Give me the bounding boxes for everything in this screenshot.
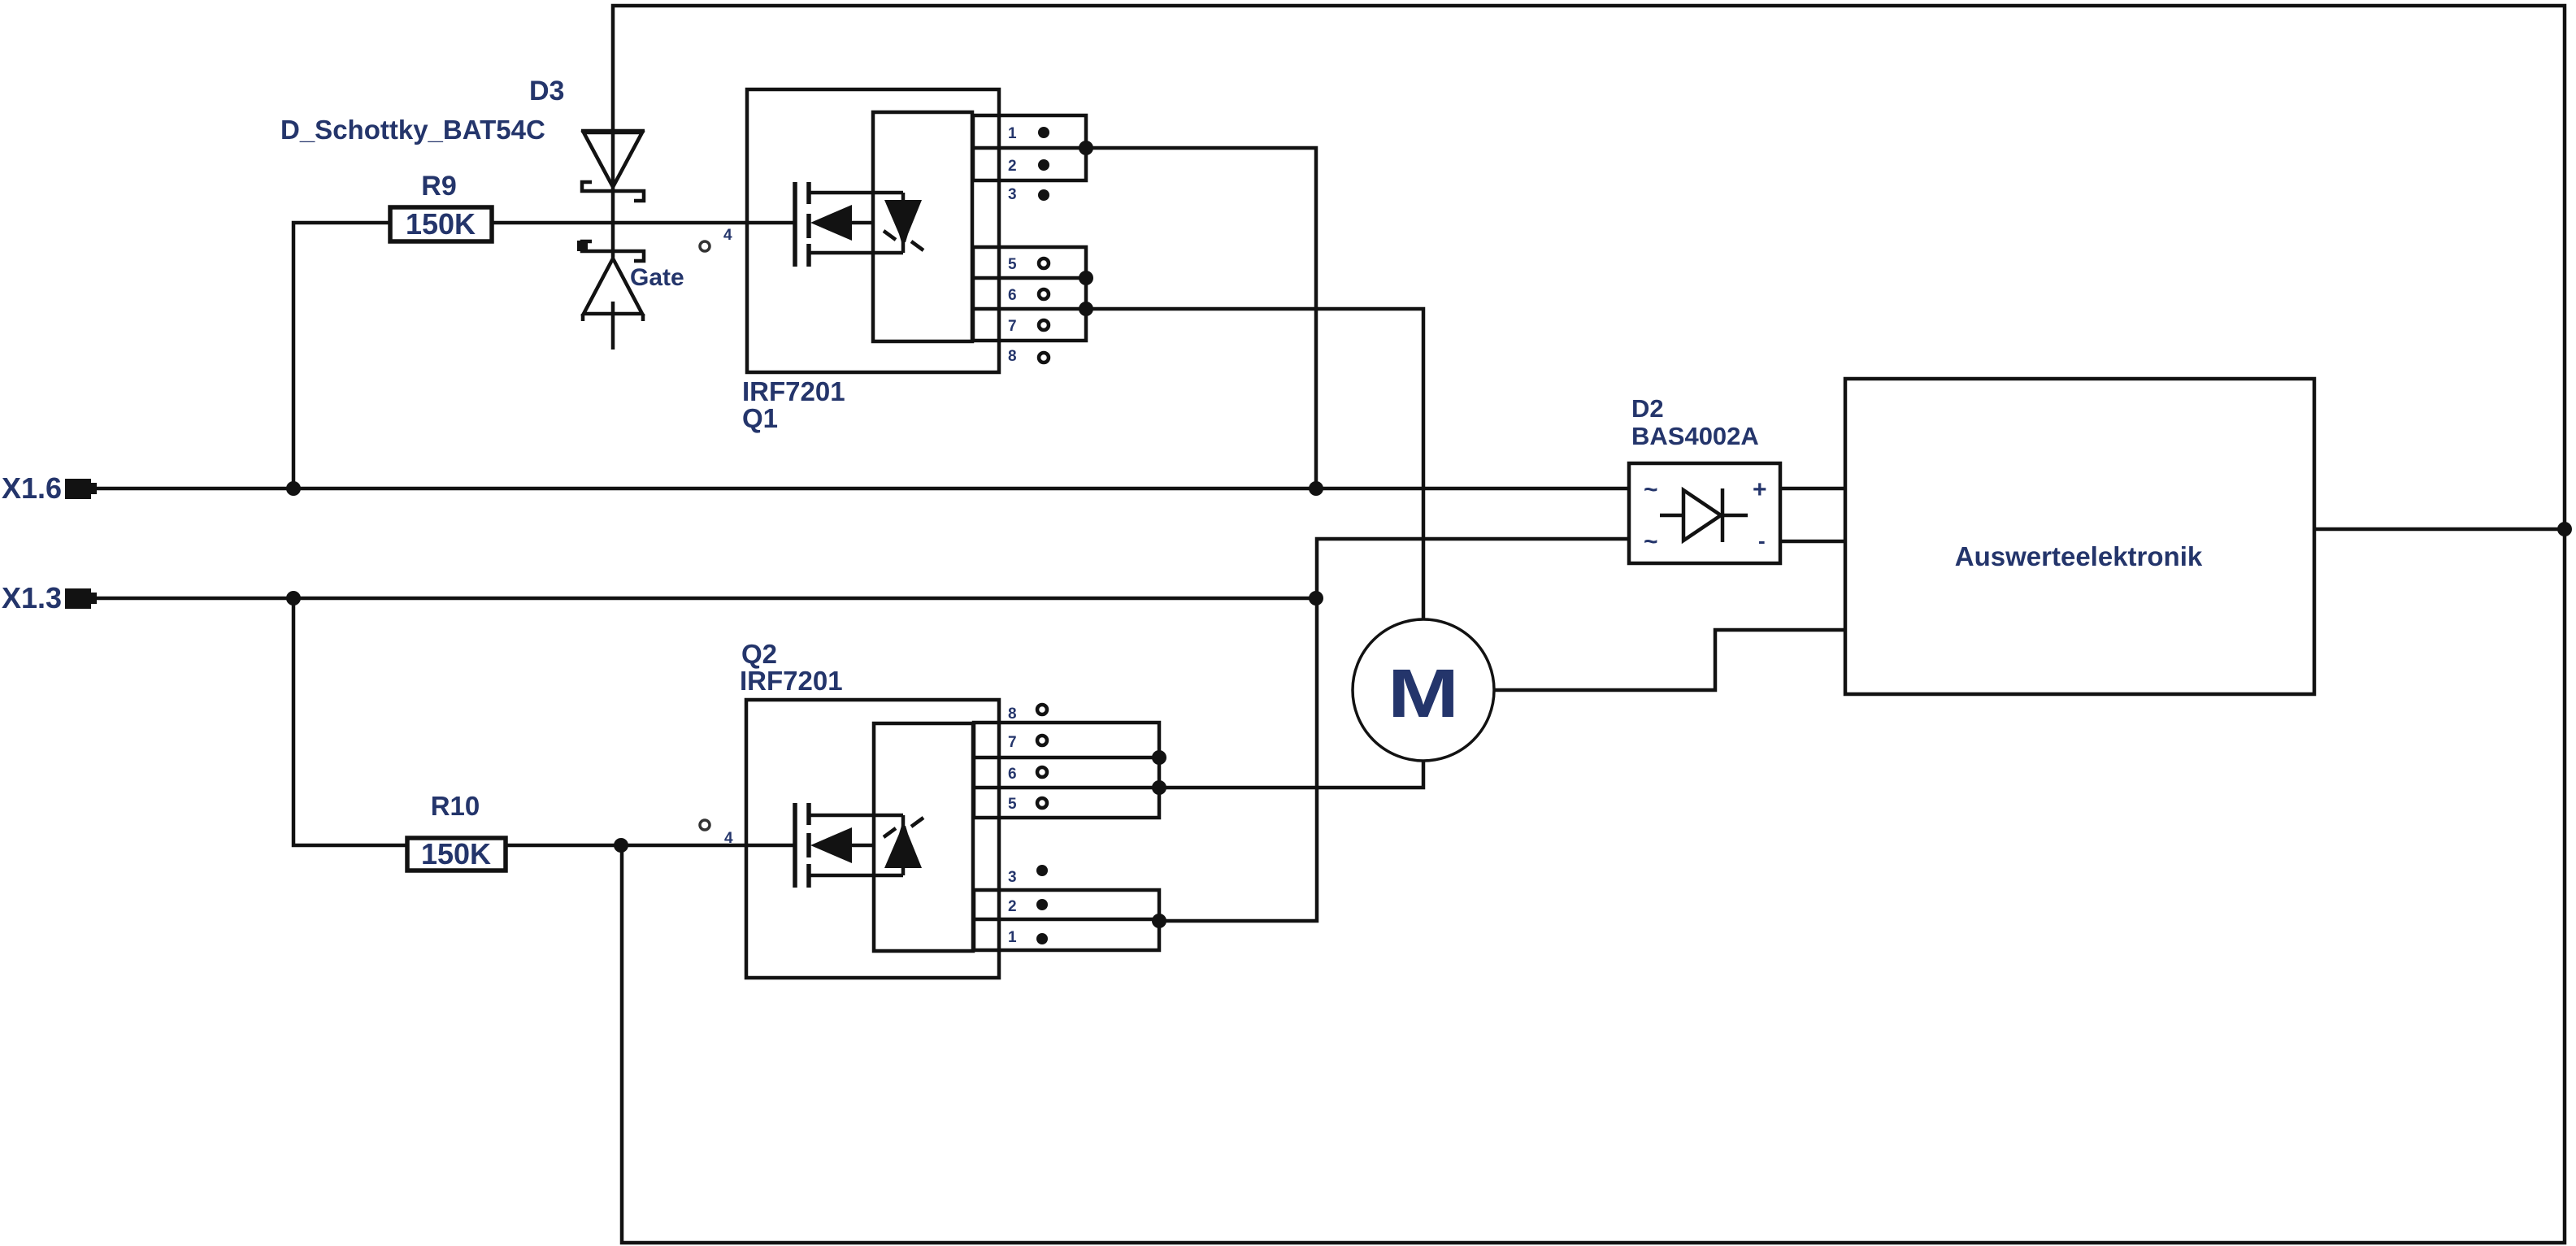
svg-text:3: 3 bbox=[1008, 186, 1017, 203]
Q2 pin 3 dot bbox=[1036, 865, 1048, 876]
Q1 pin boxes bottom (pins 5,6,7) bbox=[973, 247, 1086, 341]
svg-text:R9: R9 bbox=[421, 171, 456, 202]
junction R10 drop to bottom rail bbox=[614, 838, 628, 853]
wire D2 plus output bbox=[1780, 487, 1845, 491]
Q2 pin 1 dot bbox=[1036, 933, 1048, 944]
transistor Q2 MOSFET symbol bbox=[795, 803, 903, 888]
Q2 pin 2 dot bbox=[1036, 899, 1048, 910]
svg-text:IRF7201: IRF7201 bbox=[740, 666, 843, 696]
svg-text:D2: D2 bbox=[1631, 394, 1664, 423]
junction Q1 pins 1-2 bbox=[1079, 141, 1093, 155]
diode D3 lower (schottky cathode up, anode bottom) bbox=[577, 241, 644, 349]
svg-text:1: 1 bbox=[1008, 929, 1017, 946]
svg-text:Gate: Gate bbox=[630, 264, 684, 291]
Q1 pin 8 circle bbox=[1039, 353, 1049, 363]
junction X1.6/R9 bbox=[286, 481, 301, 496]
svg-text:D3: D3 bbox=[529, 76, 564, 106]
junction Q1 pins 6-7 bbox=[1079, 302, 1093, 316]
transistor Q2 outer box bbox=[746, 700, 999, 978]
Q1 gate pin mark bbox=[700, 241, 710, 251]
wire X1.6 net horizontal bbox=[65, 487, 1629, 491]
wire D2 minus output bbox=[1780, 540, 1845, 544]
svg-text:-: - bbox=[1758, 528, 1766, 553]
svg-text:Q2: Q2 bbox=[741, 639, 777, 669]
wire D2 lower input / X1.3 riser to Q2 sources bbox=[1159, 539, 1629, 921]
resistor R9 bbox=[390, 207, 492, 241]
junction Q2 pins 6-5 bbox=[1152, 780, 1166, 795]
transistor Q1 inner box bbox=[873, 112, 972, 341]
junction X1.3/R10 bbox=[286, 591, 301, 606]
junction X1.6 riser bbox=[1309, 481, 1323, 496]
svg-text:~: ~ bbox=[1644, 528, 1658, 555]
D2 diode symbol bbox=[1660, 488, 1748, 542]
svg-text:IRF7201: IRF7201 bbox=[742, 376, 845, 406]
terminal X1.3 bbox=[65, 588, 97, 609]
Q2 pin boxes top (pins 7,6,5) bbox=[974, 723, 1159, 818]
svg-text:1: 1 bbox=[1008, 125, 1017, 142]
junction Q1 pins 5-6 bbox=[1079, 271, 1093, 285]
svg-text:Auswerteelektronik: Auswerteelektronik bbox=[1955, 541, 2203, 571]
svg-text:150K: 150K bbox=[421, 837, 491, 870]
resistor R10 bbox=[407, 838, 506, 870]
svg-text:5: 5 bbox=[1008, 256, 1017, 273]
svg-text:+: + bbox=[1753, 476, 1767, 503]
svg-text:R10: R10 bbox=[431, 791, 480, 821]
svg-text:~: ~ bbox=[1644, 476, 1658, 503]
Q2 gate pin mark bbox=[700, 820, 710, 830]
svg-text:150K: 150K bbox=[406, 207, 476, 241]
wire X1.3 net horizontal bbox=[65, 597, 1316, 601]
svg-text:X1.3: X1.3 bbox=[2, 581, 62, 614]
Q1 pin 6 circle bbox=[1039, 289, 1049, 299]
svg-text:7: 7 bbox=[1008, 734, 1017, 751]
Q1 pin 3 dot bbox=[1038, 189, 1049, 201]
wire R9 riser from X1.6 bbox=[293, 223, 390, 488]
svg-text:7: 7 bbox=[1008, 318, 1017, 335]
svg-text:2: 2 bbox=[1008, 158, 1017, 175]
box Auswerteelektronik bbox=[1845, 379, 2314, 694]
diode D3 upper (anode top, schottky cathode) bbox=[581, 131, 645, 258]
motor M circle bbox=[1353, 619, 1494, 761]
wire Q1 source pins to X1.6 net bbox=[1086, 148, 1316, 488]
terminal X1.6 bbox=[65, 479, 97, 499]
Q2 pin 8 circle bbox=[1037, 705, 1047, 714]
svg-text:4: 4 bbox=[724, 830, 733, 847]
wire R9 to Q1 gate bbox=[492, 221, 794, 225]
svg-text:BAS4002A: BAS4002A bbox=[1631, 422, 1759, 450]
wire top/right/bottom loop (D3 anode to bottom rail) bbox=[613, 6, 2565, 1243]
transistor Q1 body diode bbox=[884, 193, 923, 253]
bridge D2 box bbox=[1629, 463, 1780, 563]
junction Q2 pins 2-1 bbox=[1152, 914, 1166, 928]
wire motor right lead to Auswerteelektronik bbox=[1494, 630, 1845, 690]
svg-text:Q1: Q1 bbox=[742, 403, 778, 433]
transistor Q1 outer box bbox=[747, 89, 999, 372]
Q2 pin 7 circle bbox=[1037, 736, 1047, 745]
svg-text:5: 5 bbox=[1008, 796, 1017, 813]
wire Auswerteelektronik output to right rail bbox=[2314, 527, 2565, 532]
svg-text:4: 4 bbox=[723, 227, 732, 244]
junction right rail bbox=[2557, 522, 2572, 536]
wire Q2 drain pins to motor bottom bbox=[1159, 761, 1423, 788]
svg-text:6: 6 bbox=[1008, 287, 1017, 304]
svg-text:D_Schottky_BAT54C: D_Schottky_BAT54C bbox=[280, 115, 545, 145]
svg-text:M: M bbox=[1388, 655, 1459, 732]
Q1 pin 1 dot bbox=[1038, 127, 1049, 138]
svg-text:2: 2 bbox=[1008, 898, 1017, 915]
Q2 pin 6 circle bbox=[1037, 767, 1047, 777]
svg-text:8: 8 bbox=[1008, 348, 1017, 365]
Q1 pin boxes top (pins 1,2) bbox=[973, 115, 1086, 180]
junction Q2 pins 7-6 bbox=[1152, 750, 1166, 765]
Q1 pin 7 circle bbox=[1039, 320, 1049, 330]
transistor Q2 body diode bbox=[884, 815, 923, 875]
transistor Q2 inner box bbox=[874, 723, 973, 951]
junction X1.3 to riser bbox=[1309, 591, 1323, 606]
wire Q1 drain pins to motor top bbox=[1086, 309, 1423, 619]
wire R10 to Q2 gate bbox=[506, 844, 794, 848]
transistor Q1 MOSFET symbol bbox=[795, 182, 903, 267]
Q2 pin 5 circle bbox=[1037, 798, 1047, 808]
svg-text:X1.6: X1.6 bbox=[2, 471, 62, 505]
svg-text:6: 6 bbox=[1008, 766, 1017, 783]
Q2 pin boxes bottom (pins 2,1) bbox=[974, 890, 1159, 950]
wire R10 riser from X1.3 bbox=[293, 598, 407, 845]
Q1 pin 2 dot bbox=[1038, 159, 1049, 171]
svg-text:3: 3 bbox=[1008, 869, 1017, 886]
svg-text:8: 8 bbox=[1008, 705, 1017, 723]
Q1 pin 5 circle bbox=[1039, 258, 1049, 268]
